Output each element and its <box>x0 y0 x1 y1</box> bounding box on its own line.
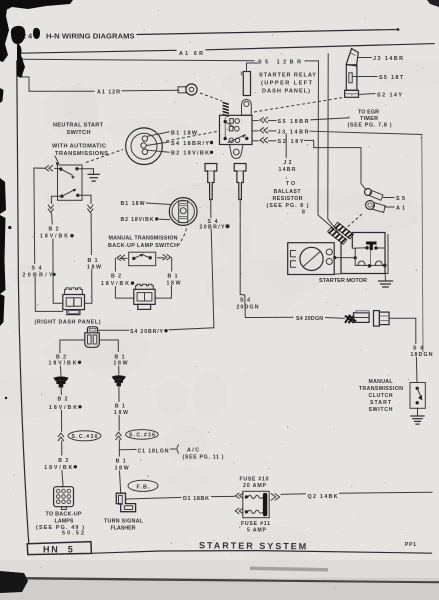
wire B2 18V/BK from switch down <box>40 196 74 303</box>
wire B2 down to splice 30 <box>44 388 81 487</box>
wire B1 18W (from oval connector) <box>99 340 127 374</box>
wire S4 20DGN horizontal to mating connectors <box>237 200 345 322</box>
wire S4 20BR/Y from T-connector down <box>200 200 230 328</box>
svg-text:S4 20BR/Y: S4 20BR/Y <box>130 329 164 335</box>
scan artifacts: left edge bars <box>0 88 11 399</box>
manual backup switch connector (circular) <box>169 198 197 226</box>
solenoid contact T <box>352 242 385 251</box>
svg-text:S5 18BR: S5 18BR <box>278 119 309 125</box>
label STARTER RELAY (UPPER LEFT DASH PANEL) <box>259 73 316 95</box>
svg-text:STARTER RELAY: STARTER RELAY <box>259 73 316 79</box>
svg-text:FUSE #10: FUSE #10 <box>240 477 269 483</box>
right frame border <box>422 135 423 353</box>
neutral switch connector (circular) <box>126 128 163 165</box>
svg-text:(SEE PG. 11 ): (SEE PG. 11 ) <box>183 455 224 461</box>
bullet splice B1 <box>112 375 126 386</box>
svg-text:TIMER: TIMER <box>360 116 378 122</box>
label J3 14BR (EGR pin) <box>359 56 404 62</box>
wire S5 12BR (to starter relay) <box>20 59 319 65</box>
svg-text:H-N WIRING DIAGRAMS: H-N WIRING DIAGRAMS <box>46 32 135 41</box>
svg-text:8: 8 <box>302 210 305 216</box>
starter relay box U-relay <box>220 115 253 144</box>
svg-text:PP1: PP1 <box>405 542 416 548</box>
fuse block <box>235 491 279 517</box>
wire stub J2 14BR to ballast resistor <box>285 134 287 158</box>
label A1 (bullet) <box>385 205 406 211</box>
oval F.B. <box>128 480 158 491</box>
label MANUAL TRANSMISSION BACK-UP LAMP SWITCH <box>108 236 178 249</box>
wire B1 down to splice 36 <box>114 386 129 493</box>
svg-text:F.B.: F.B. <box>137 484 151 490</box>
wire S4 20BR/Y down left side <box>23 168 63 311</box>
back-up lamps connector (grid) <box>54 487 74 510</box>
svg-text:5 AMP: 5 AMP <box>247 528 267 534</box>
wire S2 18Y (relay to starter solenoid bullet) <box>252 138 365 189</box>
turn signal flasher <box>116 493 135 512</box>
backup lamp switch box <box>129 252 156 266</box>
svg-text:SWITCH: SWITCH <box>67 130 91 136</box>
svg-text:TO EGR: TO EGR <box>358 109 379 115</box>
relay coil (hatched) <box>223 101 229 118</box>
scan artifacts: top-right corner <box>427 0 439 7</box>
wire A1 6R (top battery feed) <box>20 44 434 57</box>
svg-text:18DGN: 18DGN <box>411 352 433 358</box>
svg-text:STARTER SYSTEM: STARTER SYSTEM <box>199 540 308 551</box>
svg-text:20DGN: 20DGN <box>237 305 259 311</box>
wire A1 12R <box>22 58 179 96</box>
label S5 18T (EGR pin) <box>353 75 404 81</box>
svg-text:20 AMP: 20 AMP <box>243 483 267 489</box>
svg-text:SWITCH: SWITCH <box>369 407 393 413</box>
page header 8-240 H-N WIRING DIAGRAMS <box>22 28 399 41</box>
label WITH AUTOMATIC TRANSMISSIONS <box>52 144 108 166</box>
svg-text:B2 18V/BK: B2 18V/BK <box>121 217 154 223</box>
wire B1 18W from backup switch <box>155 255 180 299</box>
solenoid coil windings <box>333 248 386 267</box>
dashed lead ring terminal to relay coil <box>200 93 222 101</box>
battery cable pair down to starter <box>318 54 339 233</box>
wire D1 18BK to fuse <box>126 496 235 502</box>
label J2 14BR TO BALLAST RESISTOR (SEE PG. 8) <box>267 160 309 216</box>
svg-text:DASH PANEL): DASH PANEL) <box>262 89 310 95</box>
steering column connector (oval) <box>85 327 100 348</box>
scan artifacts: top-left blob <box>0 0 73 78</box>
dashed lead switch to connector <box>86 150 123 163</box>
wire S4 18DGN down to clutch switch <box>389 318 433 382</box>
svg-text:S.C.#30: S.C.#30 <box>72 434 98 440</box>
svg-text:TO BACK-UP: TO BACK-UP <box>46 511 82 517</box>
svg-text:WITH AUTOMATIC: WITH AUTOMATIC <box>52 144 106 150</box>
svg-text:B2 18V/BK: B2 18V/BK <box>171 151 209 157</box>
svg-text:A1 12R: A1 12R <box>97 90 120 96</box>
svg-text:(SEE PG. 7,8 ): (SEE PG. 7,8 ) <box>348 122 392 128</box>
cable crimp hatch bundle <box>327 221 353 246</box>
svg-text:A/C: A/C <box>187 447 199 453</box>
dashed lead backup connector to switch <box>177 229 187 248</box>
svg-text:(RIGHT DASH PANEL): (RIGHT DASH PANEL) <box>35 319 101 325</box>
dashed lead relay to EGR connector <box>254 98 343 113</box>
ground at neutral start switch <box>77 169 99 181</box>
label S2 14Y (EGR pin) <box>359 92 403 98</box>
svg-text:MANUAL: MANUAL <box>369 379 394 385</box>
wire C1 18LGN branch to A/C <box>119 445 223 461</box>
svg-text:TURN SIGNAL: TURN SIGNAL <box>104 518 144 524</box>
svg-text:18W: 18W <box>115 466 129 472</box>
wire S4 20BR/Y from frame to switch <box>34 166 59 171</box>
splice S.C.#30 <box>68 431 101 441</box>
wire S4 20BR/Y (oval connector to column) <box>98 328 214 335</box>
T-connector S4 20BR/Y (relay spade) <box>205 164 217 200</box>
ring terminal on A1 12R <box>178 84 197 95</box>
svg-text:B1 18W: B1 18W <box>121 201 145 207</box>
label S5 (bullet) <box>384 196 406 202</box>
starter solenoid box <box>334 233 388 275</box>
svg-text:NEUTRAL START: NEUTRAL START <box>53 123 104 129</box>
svg-text:CLUTCH: CLUTCH <box>369 393 393 399</box>
label S4 18BR/Y (connector pin) <box>146 141 213 147</box>
label TURN SIGNAL FLASHER <box>104 518 144 531</box>
mating connector pair (S4 to clutch switch) <box>345 311 389 327</box>
svg-text:C1 18LGN: C1 18LGN <box>138 448 169 454</box>
dashed lead connector to relay <box>166 132 217 142</box>
relay mounting bracket <box>242 100 252 116</box>
fusible link S5 12BR drop to relay <box>241 63 258 96</box>
svg-text:BALLAST: BALLAST <box>274 189 302 195</box>
wire B2 18V/BK from backup switch <box>101 255 134 298</box>
svg-text:MANUAL TRANSMISSION: MANUAL TRANSMISSION <box>109 236 178 242</box>
dash panel plug 1 (left) <box>63 288 85 315</box>
svg-text:18W: 18W <box>167 280 181 286</box>
neutral start switch box <box>58 165 83 200</box>
left frame border <box>17 61 29 544</box>
dashed lead bullets to cable crimp <box>344 214 362 230</box>
wire J3 14BR (relay to right frame) <box>252 128 422 136</box>
svg-text:Q2 14BK: Q2 14BK <box>308 494 338 500</box>
svg-text:18W: 18W <box>114 410 128 416</box>
svg-text:18W: 18W <box>114 361 128 367</box>
bullet connector S5 / A1 at starter <box>363 187 385 213</box>
svg-text:S4 18BR/Y: S4 18BR/Y <box>171 141 209 147</box>
svg-text:S.C.#36: S.C.#36 <box>129 433 155 439</box>
svg-text:18W: 18W <box>87 264 101 270</box>
wire S5 18BR (relay to EGR timer) <box>252 117 349 125</box>
wire B1 18W from switch down <box>78 195 101 303</box>
label FUSE #11 5 AMP <box>241 521 270 533</box>
scan artifacts: bottom page edge <box>0 567 439 594</box>
svg-text:HN 5: HN 5 <box>43 545 74 555</box>
label NEUTRAL START SWITCH <box>53 123 104 136</box>
label B2 18V/BK (backup connector) <box>121 217 170 223</box>
label MANUAL TRANSMISSION CLUTCH START SWITCH <box>359 379 403 413</box>
svg-text:A1 6R: A1 6R <box>179 51 203 57</box>
wire B2 to backup lamps (from oval connector) <box>49 340 85 376</box>
HN 5 page box <box>27 542 91 555</box>
svg-text:TRANSMISSION: TRANSMISSION <box>359 386 403 392</box>
label FUSE #10 20 AMP <box>240 477 269 489</box>
bullet splice B2 <box>53 376 68 387</box>
label TO EGR TIMER (SEE PG. 7,8) <box>348 109 392 128</box>
svg-text:TO: TO <box>286 181 295 187</box>
relay bottom mounting tab <box>230 145 244 159</box>
splice S.C.#36 <box>126 430 159 440</box>
label B1 18W (connector pin) <box>148 131 198 137</box>
label TO BACK-UP LAMPS (SEE PG. 49) 50,52 <box>36 511 84 536</box>
svg-text:STARTER MOTOR: STARTER MOTOR <box>319 278 367 284</box>
svg-text:S4 20DGN: S4 20DGN <box>296 316 323 322</box>
ground at starter <box>379 265 393 287</box>
starter motor housing <box>288 243 335 275</box>
svg-text:RESISTOR: RESISTOR <box>273 196 303 202</box>
label B1 18W (backup connector) <box>121 201 171 207</box>
svg-text:LAMPS: LAMPS <box>55 518 74 524</box>
svg-text:BACK-UP LAMP SWITCH: BACK-UP LAMP SWITCH <box>108 243 178 249</box>
svg-text:20BR/Y: 20BR/Y <box>200 224 226 230</box>
svg-text:D1 18BK: D1 18BK <box>183 496 209 502</box>
svg-text:TRANSMISSIONS: TRANSMISSIONS <box>55 151 108 157</box>
manual transmission clutch start switch <box>410 383 425 409</box>
bottom frame line <box>92 551 432 554</box>
label B2 18V/BK (connector pin) <box>148 150 214 156</box>
svg-text:14BR: 14BR <box>279 167 296 173</box>
svg-text:FUSE #11: FUSE #11 <box>241 521 270 527</box>
dash panel plug 2 (right) <box>134 284 155 309</box>
ground at clutch switch <box>411 408 424 424</box>
T-connector S4 20DGN (relay spade) <box>234 164 246 200</box>
EGR timer connector <box>345 49 359 98</box>
svg-text:START: START <box>370 400 392 406</box>
svg-text:FLASHER: FLASHER <box>111 526 136 532</box>
wire Q2 14BK to right frame <box>281 492 432 500</box>
